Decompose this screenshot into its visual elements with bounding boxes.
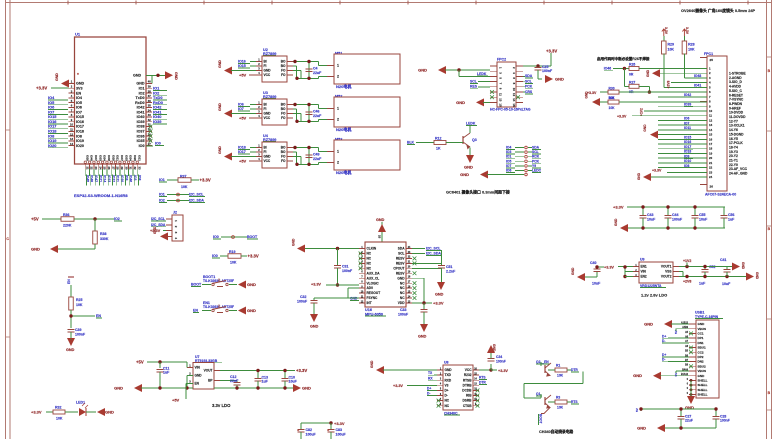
svg-text:VDD: VDD <box>398 301 405 305</box>
svg-text:10K: 10K <box>557 374 564 378</box>
svg-text:I2C_SDA: I2C_SDA <box>426 252 441 256</box>
svg-text:GND: GND <box>264 69 272 73</box>
svg-text:34: 34 <box>148 108 152 112</box>
svg-text:VIN: VIN <box>641 270 647 274</box>
svg-text:C43: C43 <box>647 213 654 217</box>
svg-text:+5V: +5V <box>239 158 247 163</box>
svg-text:+3.3V: +3.3V <box>31 410 42 415</box>
svg-text:IO16: IO16 <box>238 60 246 64</box>
svg-text:10K: 10K <box>668 48 675 52</box>
svg-text:C41: C41 <box>720 258 727 262</box>
svg-text:C55: C55 <box>699 213 706 217</box>
svg-text:C56: C56 <box>728 213 735 217</box>
svg-text:GND: GND <box>114 386 123 391</box>
svg-text:IO6: IO6 <box>238 103 244 107</box>
svg-text:25: 25 <box>103 167 107 171</box>
svg-text:GND: GND <box>264 155 272 159</box>
svg-text:GND: GND <box>31 247 40 252</box>
svg-text:C40: C40 <box>590 261 597 265</box>
svg-text:C82: C82 <box>306 428 313 432</box>
svg-text:IO6: IO6 <box>506 169 511 173</box>
svg-text:14: 14 <box>709 128 713 132</box>
svg-text:DN2: DN2 <box>698 360 704 364</box>
svg-text:IO48: IO48 <box>107 155 111 161</box>
svg-text:100nF: 100nF <box>672 218 683 222</box>
svg-text:CH340自动烧录电路: CH340自动烧录电路 <box>539 429 574 434</box>
svg-text:12: 12 <box>709 118 713 122</box>
svg-text:CPOUT: CPOUT <box>393 266 404 270</box>
svg-text:NC: NC <box>367 257 372 261</box>
svg-text:IO10: IO10 <box>120 175 124 182</box>
svg-text:BO: BO <box>281 64 286 68</box>
svg-text:IO48: IO48 <box>90 175 94 182</box>
svg-text:GND: GND <box>195 374 203 378</box>
svg-text:EN: EN <box>195 382 200 386</box>
svg-text:GND: GND <box>418 68 427 73</box>
svg-text:1uF: 1uF <box>699 282 706 286</box>
svg-text:FPC1: FPC1 <box>704 52 713 56</box>
svg-text:B: B <box>768 227 771 231</box>
svg-text:100nF: 100nF <box>398 313 409 317</box>
svg-text:10K: 10K <box>56 417 63 421</box>
svg-text:OV2640摄像头 广角160度镜头 0.5mm 24P: OV2640摄像头 广角160度镜头 0.5mm 24P <box>681 8 756 13</box>
svg-text:IO26: IO26 <box>85 155 89 161</box>
svg-text:IO26: IO26 <box>133 155 137 161</box>
svg-text:R28: R28 <box>688 43 695 47</box>
svg-text:VOUT: VOUT <box>204 369 213 373</box>
svg-text:BOOT: BOOT <box>539 414 543 424</box>
svg-text:22nF: 22nF <box>230 379 239 383</box>
svg-text:+3.3V: +3.3V <box>617 115 627 119</box>
svg-text:NC: NC <box>367 261 372 265</box>
svg-text:I2C_SCL: I2C_SCL <box>189 193 204 197</box>
svg-text:23: 23 <box>709 170 713 174</box>
svg-text:EN: EN <box>96 314 101 318</box>
svg-text:GND: GND <box>218 60 222 68</box>
svg-text:40: 40 <box>148 80 152 84</box>
svg-text:DTR: DTR <box>571 368 578 372</box>
svg-text:B: B <box>768 391 771 395</box>
svg-text:BO: BO <box>281 103 286 107</box>
svg-text:IO3: IO3 <box>133 175 137 180</box>
svg-text:PCK: PCK <box>525 85 533 89</box>
svg-text:IO5: IO5 <box>76 101 82 105</box>
svg-text:IO3: IO3 <box>506 150 511 154</box>
svg-text:IO8: IO8 <box>137 175 141 180</box>
svg-text:1: 1 <box>174 220 178 222</box>
svg-text:32: 32 <box>148 118 152 122</box>
svg-text:VSS: VSS <box>665 270 671 274</box>
svg-text:A8: A8 <box>685 345 689 348</box>
svg-text:U1: U1 <box>75 32 81 37</box>
svg-text:I2C_SCL: I2C_SCL <box>151 217 165 221</box>
svg-text:GND: GND <box>136 82 144 86</box>
svg-text:RIB: RIB <box>466 394 472 398</box>
svg-text:25: 25 <box>710 58 714 62</box>
svg-text:AUX_CL: AUX_CL <box>367 276 380 280</box>
svg-text:2: 2 <box>174 226 178 228</box>
svg-text:GND: GND <box>218 103 222 111</box>
svg-text:FO: FO <box>281 73 286 77</box>
svg-text:IO20: IO20 <box>76 144 84 148</box>
svg-text:R1: R1 <box>556 364 560 368</box>
svg-text:100nF: 100nF <box>496 360 506 364</box>
svg-text:+3.3V: +3.3V <box>433 301 444 306</box>
svg-text:IO0: IO0 <box>155 142 161 146</box>
svg-text:GND: GND <box>456 100 465 105</box>
svg-text:100nF: 100nF <box>297 300 308 304</box>
svg-text:33: 33 <box>148 113 152 117</box>
svg-text:TxD0: TxD0 <box>136 96 145 100</box>
svg-text:27: 27 <box>111 167 115 171</box>
svg-text:NC: NC <box>445 404 450 408</box>
svg-text:I2C_SCL: I2C_SCL <box>426 247 441 251</box>
svg-text:2: 2 <box>337 75 339 79</box>
svg-text:FO: FO <box>281 69 286 73</box>
svg-text:RTSB: RTSB <box>463 378 472 382</box>
svg-text:B: B <box>768 69 771 73</box>
svg-text:RxD0: RxD0 <box>135 101 144 105</box>
svg-text:DCDB: DCDB <box>462 389 472 393</box>
svg-text:10K: 10K <box>181 185 188 189</box>
svg-text:25: 25 <box>378 235 382 239</box>
svg-text:V3: V3 <box>445 383 449 387</box>
svg-text:100uF: 100uF <box>336 433 347 437</box>
svg-text:FO: FO <box>281 155 286 159</box>
svg-text:GND: GND <box>247 282 256 287</box>
svg-text:IO37: IO37 <box>137 130 145 134</box>
svg-text:IO14: IO14 <box>103 175 107 182</box>
svg-text:RESV: RESV <box>396 257 406 261</box>
svg-text:SCL: SCL <box>525 80 532 84</box>
svg-text:IO7: IO7 <box>506 164 511 168</box>
svg-text:IO12: IO12 <box>111 175 115 182</box>
svg-text:IO48: IO48 <box>90 155 94 161</box>
svg-text:+5V: +5V <box>172 398 180 403</box>
svg-text:24: 24 <box>709 175 713 179</box>
svg-text:11: 11 <box>499 93 503 96</box>
svg-text:10K: 10K <box>609 106 616 110</box>
svg-text:EN: EN <box>76 91 81 95</box>
svg-text:10uF: 10uF <box>592 282 601 286</box>
svg-text:10K: 10K <box>76 303 83 307</box>
svg-text:NC: NC <box>367 252 372 256</box>
svg-text:15: 15 <box>499 103 503 107</box>
svg-text:TX: TX <box>428 371 433 375</box>
svg-text:37: 37 <box>148 94 152 98</box>
svg-text:IO9: IO9 <box>124 175 128 180</box>
svg-text:GND: GND <box>76 82 84 86</box>
svg-text:BOOT: BOOT <box>247 235 258 239</box>
svg-text:IO0: IO0 <box>212 254 218 258</box>
svg-text:C52: C52 <box>709 265 716 269</box>
svg-text:220K: 220K <box>63 224 72 228</box>
svg-text:IO38: IO38 <box>137 125 145 129</box>
svg-text:13: 13 <box>499 98 503 102</box>
svg-text:SHELL: SHELL <box>698 379 708 383</box>
svg-text:0R: 0R <box>629 72 634 76</box>
svg-text:VOUT1: VOUT1 <box>661 265 672 269</box>
svg-text:36: 36 <box>148 99 152 103</box>
svg-text:FI: FI <box>264 64 267 68</box>
svg-text:IO26: IO26 <box>111 155 115 161</box>
svg-text:+5V: +5V <box>239 72 247 77</box>
svg-text:REGOUT: REGOUT <box>367 291 381 295</box>
svg-text:11: 11 <box>709 114 712 118</box>
svg-text:+3.3V: +3.3V <box>334 421 345 426</box>
svg-text:22: 22 <box>709 166 713 170</box>
svg-text:AUX_DA: AUX_DA <box>367 271 381 275</box>
svg-text:IO41: IO41 <box>137 110 145 114</box>
svg-text:0: 0 <box>687 379 689 381</box>
svg-text:NC: NC <box>400 296 405 300</box>
svg-text:10: 10 <box>512 88 516 92</box>
svg-text:GND: GND <box>218 146 222 154</box>
svg-text:C83: C83 <box>336 428 343 432</box>
svg-text:4: 4 <box>174 237 178 239</box>
svg-text:100uF: 100uF <box>306 433 317 437</box>
svg-text:32: 32 <box>133 167 137 171</box>
svg-text:N20电机: N20电机 <box>336 83 351 89</box>
svg-text:RESV: RESV <box>396 271 406 275</box>
svg-text:24-AF_GND: 24-AF_GND <box>729 172 748 176</box>
svg-text:SDA: SDA <box>398 247 405 251</box>
svg-text:+5V: +5V <box>31 217 39 222</box>
svg-text:10nF: 10nF <box>699 218 708 222</box>
svg-text:+2V8: +2V8 <box>667 81 671 89</box>
svg-text:CRS: CRS <box>525 90 533 94</box>
svg-text:IO13: IO13 <box>107 175 111 182</box>
svg-text:10uF: 10uF <box>647 218 656 222</box>
svg-text:BO: BO <box>281 150 286 154</box>
svg-text:EN: EN <box>67 279 71 284</box>
svg-text:100nF: 100nF <box>75 333 86 337</box>
svg-text:100nF: 100nF <box>720 419 730 423</box>
svg-text:1: 1 <box>337 150 339 154</box>
svg-text:R232: R232 <box>464 373 472 377</box>
svg-text:10uF: 10uF <box>289 380 298 384</box>
svg-text:IO4: IO4 <box>76 96 83 100</box>
svg-text:22uF: 22uF <box>313 157 322 161</box>
svg-text:3V3: 3V3 <box>76 86 83 90</box>
svg-text:IO2: IO2 <box>159 199 165 203</box>
svg-text:R30: R30 <box>609 86 615 90</box>
svg-text:INT: INT <box>367 301 372 305</box>
svg-text:GND: GND <box>646 69 650 77</box>
svg-text:C51: C51 <box>446 265 453 269</box>
svg-text:R12: R12 <box>435 137 442 141</box>
svg-text:NC: NC <box>400 286 405 290</box>
svg-text:BO: BO <box>281 107 286 111</box>
svg-text:VOUT2: VOUT2 <box>661 275 672 279</box>
svg-text:BO: BO <box>281 60 286 64</box>
svg-text:VBUS: VBUS <box>698 369 707 373</box>
svg-text:Q3: Q3 <box>472 138 477 142</box>
svg-text:RTS: RTS <box>479 376 486 380</box>
svg-text:100nF: 100nF <box>542 69 553 73</box>
svg-text:IO15: IO15 <box>76 115 84 119</box>
svg-text:DN1: DN1 <box>698 341 704 345</box>
svg-text:+3.3V: +3.3V <box>36 85 47 90</box>
svg-text:CC2: CC2 <box>698 350 704 354</box>
svg-text:HC-FPC-05-10-16PxLTAG: HC-FPC-05-10-16PxLTAG <box>490 108 531 112</box>
svg-text:IO1: IO1 <box>506 155 511 159</box>
svg-text:GND: GND <box>310 325 319 329</box>
svg-text:CC1: CC1 <box>698 332 704 336</box>
svg-text:IO21: IO21 <box>98 175 102 182</box>
svg-text:GND: GND <box>464 165 473 170</box>
svg-text:VBUS: VBUS <box>698 327 707 331</box>
svg-text:GND: GND <box>418 335 427 339</box>
svg-text:SHELL: SHELL <box>698 393 708 397</box>
svg-text:GND: GND <box>350 297 358 301</box>
svg-text:GND: GND <box>264 112 272 116</box>
svg-text:EN2: EN2 <box>641 275 647 279</box>
svg-text:C34: C34 <box>496 355 502 359</box>
svg-text:18: 18 <box>709 147 713 151</box>
svg-text:IO18: IO18 <box>76 130 84 134</box>
svg-text:NC: NC <box>400 281 405 285</box>
svg-text:DTRB: DTRB <box>463 383 473 387</box>
svg-text:R25: R25 <box>76 298 83 302</box>
svg-text:13: 13 <box>70 137 74 141</box>
svg-text:28: 28 <box>116 167 120 171</box>
svg-text:GND: GND <box>637 172 641 180</box>
svg-text:BI: BI <box>264 60 267 64</box>
svg-text:IO11: IO11 <box>116 175 120 182</box>
svg-text:RES: RES <box>470 85 478 89</box>
svg-text:D+: D+ <box>662 334 666 338</box>
svg-text:30: 30 <box>124 167 128 171</box>
svg-text:22uF: 22uF <box>685 419 693 423</box>
svg-text:GND: GND <box>741 262 745 270</box>
svg-text:2: 2 <box>337 161 339 165</box>
svg-text:SDA: SDA <box>525 74 533 78</box>
svg-text:1.2v 2.8v LDO: 1.2v 2.8v LDO <box>641 293 667 298</box>
svg-text:IO16: IO16 <box>76 120 84 124</box>
svg-text:VCC: VCC <box>264 73 271 77</box>
svg-text:IO19: IO19 <box>76 139 84 143</box>
svg-text:IO17: IO17 <box>76 125 84 129</box>
svg-text:DP1: DP1 <box>698 336 704 340</box>
svg-text:14: 14 <box>70 142 74 146</box>
svg-text:GND: GND <box>55 73 59 81</box>
svg-text:12: 12 <box>70 132 74 136</box>
svg-text:11: 11 <box>70 128 73 132</box>
svg-text:26: 26 <box>107 167 111 171</box>
svg-text:IO1: IO1 <box>159 178 165 182</box>
svg-text:GND: GND <box>247 308 256 313</box>
svg-text:26: 26 <box>710 185 714 189</box>
svg-text:NC: NC <box>367 266 372 270</box>
svg-text:21: 21 <box>85 167 89 171</box>
svg-text:R31: R31 <box>609 96 615 100</box>
svg-text:IO40: IO40 <box>137 115 145 119</box>
svg-text:SHELL: SHELL <box>698 388 708 392</box>
svg-text:GND: GND <box>637 426 646 431</box>
svg-text:39: 39 <box>148 84 152 88</box>
svg-text:31: 31 <box>129 167 133 171</box>
svg-text:C4: C4 <box>313 67 318 71</box>
svg-text:FO: FO <box>281 116 286 120</box>
svg-text:GND: GND <box>133 74 141 78</box>
svg-text:10uF: 10uF <box>722 282 731 286</box>
svg-text:17: 17 <box>709 142 713 146</box>
svg-text:N20电机: N20电机 <box>336 169 351 175</box>
svg-text:IO41: IO41 <box>694 84 701 88</box>
svg-text:RXD: RXD <box>445 378 452 382</box>
svg-text:IO47: IO47 <box>94 155 98 161</box>
svg-text:1K: 1K <box>436 147 441 151</box>
svg-text:D-: D- <box>445 394 448 398</box>
svg-text:AFC07-S24ECA-00: AFC07-S24ECA-00 <box>705 193 736 197</box>
svg-text:VCC: VCC <box>264 159 271 163</box>
svg-text:GND: GND <box>105 410 114 415</box>
svg-text:TXD: TXD <box>445 373 452 377</box>
svg-text:2.2nF: 2.2nF <box>446 270 456 274</box>
svg-text:U16: U16 <box>365 308 372 312</box>
svg-text:IO2: IO2 <box>139 91 145 95</box>
svg-text:SCL: SCL <box>470 80 477 84</box>
svg-text:R32: R32 <box>55 406 62 410</box>
svg-text:C: C <box>6 237 9 241</box>
svg-text:C31: C31 <box>342 265 349 269</box>
svg-text:22uF: 22uF <box>313 71 322 75</box>
svg-text:+5V: +5V <box>239 115 247 120</box>
svg-text:IO7: IO7 <box>238 107 244 111</box>
svg-text:PCK: PCK <box>532 159 540 163</box>
svg-text:+3.3V: +3.3V <box>613 205 624 210</box>
svg-text:GND: GND <box>585 91 589 99</box>
svg-text:GND: GND <box>614 218 618 226</box>
svg-text:R38: R38 <box>100 232 107 236</box>
svg-text:U8: U8 <box>444 361 449 365</box>
svg-text:IO15: IO15 <box>238 64 246 68</box>
svg-text:16: 16 <box>512 103 516 107</box>
svg-text:VIN: VIN <box>195 366 201 370</box>
svg-text:D-: D- <box>662 358 665 362</box>
svg-text:BI: BI <box>264 146 267 150</box>
svg-text:IO42: IO42 <box>137 106 145 110</box>
svg-text:GND: GND <box>644 322 653 327</box>
svg-text:GND: GND <box>555 77 564 82</box>
svg-text:BO: BO <box>281 146 286 150</box>
svg-text:0: 0 <box>687 393 689 395</box>
svg-text:+3.3V: +3.3V <box>311 283 321 287</box>
svg-text:2: 2 <box>337 118 339 122</box>
svg-text:+3.3V: +3.3V <box>296 368 307 373</box>
svg-text:SHELL: SHELL <box>698 383 708 387</box>
svg-text:IO1: IO1 <box>139 86 145 90</box>
svg-text:10: 10 <box>70 123 74 127</box>
svg-text:D-: D- <box>427 392 430 396</box>
svg-text:22: 22 <box>90 167 94 171</box>
svg-text:CTSB: CTSB <box>463 404 472 408</box>
svg-text:13: 13 <box>709 123 713 127</box>
svg-text:IO5: IO5 <box>506 159 511 163</box>
svg-text:NC: NC <box>400 291 405 295</box>
svg-text:10K: 10K <box>688 48 695 52</box>
svg-text:IO21: IO21 <box>137 155 141 161</box>
svg-text:D+: D+ <box>427 386 431 390</box>
svg-text:GND: GND <box>153 226 157 234</box>
svg-text:+3.3V: +3.3V <box>393 384 403 388</box>
svg-text:AD0: AD0 <box>367 286 374 290</box>
svg-text:3: 3 <box>174 232 178 234</box>
svg-text:+3.3V: +3.3V <box>248 254 259 259</box>
svg-text:GND: GND <box>698 322 706 326</box>
svg-text:SBU2: SBU2 <box>698 364 706 368</box>
